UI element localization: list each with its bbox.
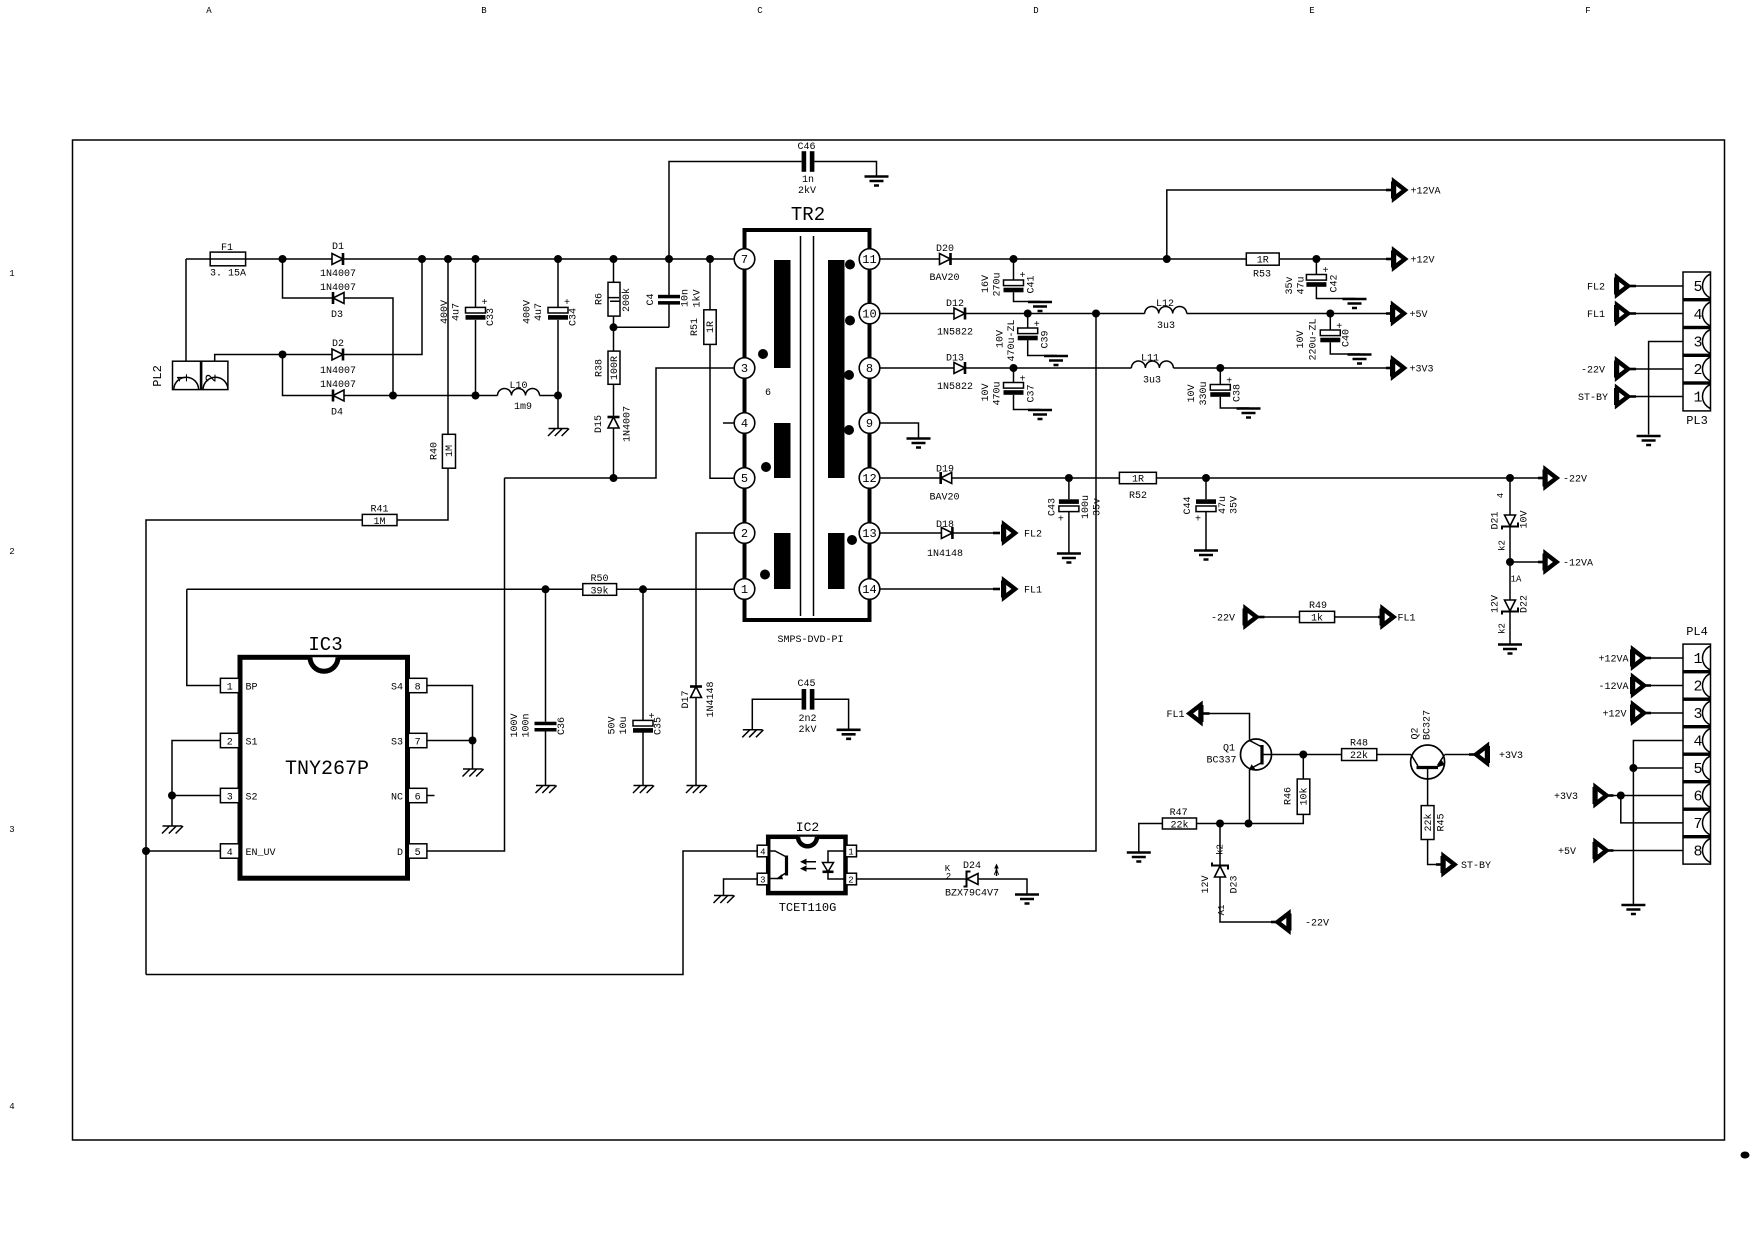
svg-text:4: 4	[1693, 734, 1702, 751]
svg-text:FL2: FL2	[1024, 530, 1042, 541]
capacitor C35 10u 50V	[642, 589, 644, 785]
svg-text:+12VA: +12VA	[1411, 187, 1441, 198]
svg-text:13: 13	[862, 527, 876, 541]
svg-text:BC327: BC327	[1423, 710, 1434, 740]
wire: D4 row riser and run	[283, 355, 498, 396]
svg-text:C43: C43	[1048, 498, 1059, 516]
wire: pin 12 -22V rail	[880, 477, 1538, 479]
IC3 pin 3 box	[220, 788, 239, 802]
svg-text:D20: D20	[936, 244, 954, 255]
node: R6/R38/C4 junction	[610, 323, 618, 331]
wire: Q2 collector to R45	[1427, 769, 1429, 806]
svg-text:NC: NC	[391, 792, 403, 803]
wire: PL4 pin 5 branch	[1633, 767, 1683, 769]
svg-text:11: 11	[862, 253, 876, 267]
node: D4 row C34/ground	[554, 392, 562, 400]
wire: R40 column from top rail	[447, 259, 449, 434]
ground (chassis) at C45 left	[742, 730, 763, 738]
svg-text:1: 1	[9, 269, 14, 279]
wire: pin 8 +3V3 rail	[880, 367, 1386, 369]
svg-text:50V: 50V	[608, 716, 619, 734]
IC3 pin 7 box	[408, 733, 427, 747]
node: -12VA junction	[1506, 558, 1514, 566]
wire: pin 9 to ground	[880, 423, 919, 439]
node: top rail R6	[610, 255, 618, 263]
wire: mains top rail from F1 area to TR2 pin 7	[186, 258, 745, 260]
node: top rail R51	[706, 255, 714, 263]
svg-text:12V: 12V	[1491, 595, 1502, 613]
svg-text:S3: S3	[391, 737, 403, 748]
TR2 polarity dot pin13 side	[847, 535, 857, 545]
wire: F1 left lead down to PL2 pin 1	[185, 259, 187, 361]
svg-text:400V: 400V	[523, 300, 534, 324]
wire: R49 to FL1 arrow	[1335, 616, 1378, 618]
svg-text:47u: 47u	[1218, 496, 1229, 514]
resistor R50 39k	[583, 584, 617, 596]
svg-text:C38: C38	[1233, 384, 1244, 402]
zener D24 BZX79C4V7	[964, 872, 979, 887]
wire: -22V arrow to R49	[1265, 616, 1300, 618]
flag arrow +3V3 into Q2	[1469, 753, 1476, 756]
svg-text:-22V: -22V	[1581, 366, 1605, 377]
flag arrow -22V	[1538, 477, 1544, 480]
svg-text:35V: 35V	[1230, 496, 1241, 514]
TR2 pin 12	[859, 468, 880, 489]
svg-text:1N4007: 1N4007	[320, 283, 356, 294]
diode D18 1N4148	[941, 527, 952, 539]
svg-text:10V: 10V	[981, 383, 992, 401]
zener D21 10V	[1502, 515, 1518, 530]
wire: IC2 pin 2 to D24	[857, 878, 967, 880]
svg-text:TCET110G: TCET110G	[779, 901, 837, 915]
node: D4 row C33	[472, 392, 480, 400]
svg-text:C40: C40	[1342, 329, 1353, 347]
svg-text:1R: 1R	[1257, 256, 1269, 267]
wire: IC3 pin 6 no-connect stub	[427, 795, 435, 797]
node: C44 junction	[1202, 474, 1210, 482]
svg-text:R49: R49	[1309, 601, 1327, 612]
svg-text:8: 8	[866, 362, 873, 376]
node: R50 row C35	[639, 585, 647, 593]
ground (chassis) at IC3 S3/S4	[463, 769, 484, 777]
TR2 pin 7	[734, 249, 755, 270]
flag arrow ST-BY	[1441, 856, 1455, 873]
svg-text:10u: 10u	[619, 716, 630, 734]
svg-text:22k: 22k	[1350, 750, 1368, 762]
ground (chassis) at IC3 S2	[162, 826, 183, 834]
TR2 pin 1	[734, 579, 755, 600]
node: top rail R40 column	[444, 255, 452, 263]
svg-text:14: 14	[862, 583, 876, 597]
svg-text:4: 4	[9, 1102, 14, 1112]
svg-text:35v: 35v	[1093, 498, 1104, 516]
wire: EN_UV bottom loop to IC2 pin 4	[146, 851, 758, 975]
svg-text:k2: k2	[1216, 844, 1226, 855]
svg-text:C33: C33	[486, 308, 497, 326]
ground (earth) at C42	[1343, 299, 1367, 308]
svg-text:R6: R6	[595, 293, 606, 305]
svg-text:8: 8	[415, 682, 421, 693]
node: D2 row junction	[279, 351, 287, 359]
svg-text:C45: C45	[797, 679, 815, 690]
node: top rail / D1 junction	[279, 255, 287, 263]
svg-text:4: 4	[1693, 307, 1702, 324]
svg-text:330u: 330u	[1199, 381, 1210, 405]
capacitor C34 4u7 400V	[557, 259, 559, 396]
PL3 cell 3	[1703, 330, 1711, 354]
svg-text:8: 8	[1693, 844, 1702, 861]
resistor R40 1M	[442, 434, 455, 468]
TR2 pin 4	[734, 413, 755, 434]
svg-text:TR2: TR2	[791, 204, 825, 226]
TR2 pin 14	[859, 579, 880, 600]
IC2 pin 4 box	[757, 845, 768, 857]
zener D22 12V	[1502, 600, 1518, 615]
svg-text:1n: 1n	[802, 175, 814, 186]
svg-text:R53: R53	[1253, 270, 1271, 281]
svg-text:100V: 100V	[510, 713, 521, 737]
wire: D17 to ground	[695, 698, 697, 786]
TR2 polarity dot pin1 side	[760, 570, 770, 580]
svg-text:10k: 10k	[1299, 787, 1311, 805]
resistor R52 1R	[1119, 472, 1156, 483]
svg-text:1: 1	[741, 583, 748, 597]
wire: +12VA branch	[1167, 190, 1386, 259]
svg-text:D: D	[397, 848, 403, 859]
svg-text:k2: k2	[1498, 623, 1508, 634]
svg-text:R41: R41	[370, 505, 388, 516]
svg-text:4: 4	[741, 417, 748, 431]
svg-text:D1: D1	[332, 242, 344, 253]
svg-text:R47: R47	[1170, 808, 1188, 819]
wire: pin 10 +5V rail	[880, 313, 1386, 315]
svg-text:BZX79C4V7: BZX79C4V7	[945, 889, 999, 900]
IC3 pin 8 box	[408, 678, 427, 692]
TR2 polarity dot pin3 side	[758, 349, 768, 359]
capacitor C42 47u 35v	[1316, 259, 1354, 299]
svg-text:S2: S2	[246, 792, 258, 803]
diode D1 1N4007	[332, 253, 343, 265]
ground (chassis) under C34	[548, 429, 569, 437]
svg-text:6: 6	[1693, 789, 1702, 806]
svg-text:D13: D13	[946, 354, 964, 365]
diode D20 BAV20	[940, 253, 951, 265]
svg-text:SMPS-DVD-PI: SMPS-DVD-PI	[777, 635, 843, 646]
wire: PL3 pin 3 to ground	[1649, 342, 1683, 435]
transformer TR2 frame	[745, 230, 870, 249]
wire: pin 14 to FL1	[880, 588, 993, 590]
svg-text:1N5822: 1N5822	[937, 328, 973, 339]
TR2 pin 3	[734, 358, 755, 379]
IC2 light arrows	[802, 862, 816, 869]
svg-text:L10: L10	[509, 381, 527, 392]
resistor R38 100R	[608, 351, 620, 384]
TR2 pin 5	[734, 468, 755, 489]
diode D4 1N4007	[333, 390, 344, 402]
svg-text:3: 3	[741, 362, 748, 376]
flag arrow +3V3	[1390, 360, 1404, 377]
wire: IC3 S4 to S3 column	[427, 686, 473, 741]
PL3 cell 2	[1703, 357, 1711, 381]
wire: +12VA to PL4 pin 1	[1651, 657, 1683, 659]
PL4 cell 3	[1703, 701, 1711, 725]
node: R50 row C36	[542, 585, 550, 593]
TR2 pin 8	[859, 358, 880, 379]
ground (chassis) at C35	[633, 786, 654, 794]
svg-text:10V: 10V	[1296, 330, 1307, 348]
svg-text:TNY267P: TNY267P	[285, 758, 369, 781]
svg-text:k2: k2	[1498, 540, 1508, 551]
diode D2 1N4007	[332, 349, 343, 361]
svg-text:EN_UV: EN_UV	[246, 848, 276, 859]
svg-text:100n: 100n	[522, 713, 533, 737]
wire: stem to chassis ground under C34	[557, 396, 559, 429]
svg-text:2: 2	[848, 875, 853, 885]
node: C42 junction	[1312, 255, 1320, 263]
svg-text:C36: C36	[557, 717, 568, 735]
TR2 primary winding bar (pins 2-1)	[774, 533, 791, 589]
diode D19 BAV20	[941, 472, 952, 484]
svg-text:D23: D23	[1230, 875, 1241, 893]
wire: +5V to PL4 pin 8	[1614, 850, 1684, 852]
svg-text:IC3: IC3	[308, 634, 342, 656]
TR2 pin 11	[859, 249, 880, 270]
flag arrow +5V	[1390, 305, 1404, 322]
svg-text:ST-BY: ST-BY	[1461, 861, 1491, 872]
svg-text:7: 7	[741, 253, 748, 267]
svg-text:1N4007: 1N4007	[320, 366, 356, 377]
svg-text:D21: D21	[1491, 511, 1502, 529]
svg-text:-12VA: -12VA	[1563, 559, 1593, 570]
wire: R46 top lead	[1302, 755, 1304, 780]
svg-text:+: +	[1195, 515, 1201, 526]
svg-text:1N5822: 1N5822	[937, 382, 973, 393]
svg-text:1k: 1k	[1311, 613, 1323, 625]
svg-text:A: A	[206, 6, 212, 16]
node: D21 chain junction	[1506, 474, 1514, 482]
svg-text:+: +	[1322, 266, 1328, 277]
wire: L10 to C34 bottom junction	[540, 395, 559, 397]
svg-text:FL1: FL1	[1587, 310, 1605, 321]
svg-text:3: 3	[9, 825, 14, 835]
svg-text:1N4007: 1N4007	[320, 380, 356, 391]
wire: +12V to PL4 pin 3	[1651, 712, 1683, 714]
wire: C46 right to ground	[814, 162, 876, 177]
ground (earth) at PL3	[1637, 436, 1661, 445]
node: C39 junction	[1024, 310, 1032, 318]
IC3 pin 2 box	[220, 733, 239, 747]
node: C37 junction	[1010, 364, 1018, 372]
TR2 polarity dot pin8 side	[844, 370, 854, 380]
svg-text:-22V: -22V	[1211, 614, 1235, 625]
node: S1/S2 junction	[168, 792, 176, 800]
svg-text:10: 10	[862, 308, 876, 322]
flag arrow -22V into D23	[1271, 921, 1278, 924]
wire: R51 bottom down and right to TR2 pin 5	[710, 344, 734, 478]
resistor R53 1R	[1246, 253, 1279, 265]
svg-text:39k: 39k	[590, 585, 608, 597]
wire: TR2 pin 2 to D17 column	[696, 533, 734, 687]
TR2 pin 13	[859, 523, 880, 544]
flag arrow -12VA	[1538, 561, 1544, 564]
svg-text:100R: 100R	[610, 356, 621, 380]
svg-text:470u-ZL: 470u-ZL	[1007, 319, 1018, 361]
svg-text:Q1: Q1	[1223, 744, 1235, 755]
PL4 cell 7	[1703, 811, 1711, 835]
node: PL4 ground column junction	[1629, 764, 1637, 772]
IC2 pin 2 box	[846, 873, 857, 885]
svg-text:C39: C39	[1041, 330, 1052, 348]
svg-text:10V: 10V	[1187, 384, 1198, 402]
svg-text:270u: 270u	[993, 272, 1004, 296]
svg-text:22k: 22k	[1170, 819, 1188, 831]
capacitor C4 10n 1kV	[668, 259, 670, 327]
svg-text:C46: C46	[797, 142, 815, 153]
ground (earth) at C43	[1057, 554, 1081, 563]
svg-text:D: D	[1033, 6, 1038, 16]
svg-text:-12VA: -12VA	[1598, 682, 1628, 693]
svg-text:R51: R51	[690, 318, 701, 336]
wire: -22V to PL3 pin 2	[1636, 368, 1683, 370]
svg-text:10V: 10V	[1520, 510, 1531, 528]
wire: FL1 to PL3 pin 4	[1636, 313, 1683, 315]
svg-text:B: B	[481, 6, 487, 16]
svg-text:BAV20: BAV20	[929, 273, 959, 284]
node: C38 junction	[1216, 364, 1224, 372]
node: D4/D3 junction	[389, 392, 397, 400]
wire: R6 bottom to junction, across to C4	[614, 316, 670, 351]
svg-text:BC337: BC337	[1206, 756, 1236, 767]
svg-text:1: 1	[1693, 390, 1702, 407]
svg-text:16V: 16V	[981, 275, 992, 293]
svg-text:2: 2	[204, 373, 221, 382]
svg-text:E: E	[1309, 6, 1314, 16]
svg-text:3: 3	[760, 875, 765, 885]
wire: FL1 to Q1 collector	[1210, 714, 1250, 740]
wire: PL4 pin 4 to ground column	[1633, 741, 1683, 906]
TR2 pin 9	[859, 413, 880, 434]
svg-text:D17: D17	[681, 690, 692, 708]
svg-text:D4: D4	[331, 408, 343, 419]
svg-text:3u3: 3u3	[1143, 376, 1161, 387]
flag arrow FL1 out	[993, 588, 1000, 591]
wire: R6 top lead	[613, 259, 615, 282]
node: C41 junction	[1010, 255, 1018, 263]
svg-text:6: 6	[765, 388, 771, 399]
capacitor C41 270u 16V	[1014, 259, 1041, 302]
PL3 cell 5	[1703, 274, 1711, 298]
wire: Q2 emitter to +3V3 flag	[1445, 754, 1470, 756]
svg-text:ST-BY: ST-BY	[1578, 393, 1608, 404]
svg-text:47u: 47u	[1297, 276, 1308, 294]
svg-text:R52: R52	[1129, 491, 1147, 502]
resistor R41 1M	[362, 514, 397, 525]
TR2 polarity dot pin11 side	[845, 260, 855, 270]
svg-text:12V: 12V	[1201, 875, 1212, 893]
wire: D15 bottom to bias row	[613, 428, 615, 478]
svg-text:3: 3	[1693, 706, 1702, 723]
svg-text:2kV: 2kV	[798, 185, 816, 197]
svg-text:+: +	[481, 298, 487, 309]
svg-text:+5V: +5V	[1410, 310, 1428, 321]
IC2 LED	[828, 851, 846, 879]
svg-text:10V: 10V	[996, 330, 1007, 348]
resistor R46 10k	[1297, 779, 1310, 814]
svg-text:-22V: -22V	[1305, 919, 1329, 930]
TR2 polarity dot pin5 side	[761, 462, 771, 472]
ground (earth) at pin 9	[907, 439, 931, 448]
svg-text:FL2: FL2	[1587, 283, 1605, 294]
ground (earth) at D24	[1015, 895, 1039, 904]
svg-text:-22V: -22V	[1563, 475, 1587, 486]
svg-text:1kV: 1kV	[692, 289, 704, 307]
capacitor C38 330u 10V	[1220, 368, 1248, 409]
svg-text:100u: 100u	[1081, 495, 1092, 519]
PL4 cell 8	[1703, 839, 1711, 863]
wire: ST-BY to PL3 pin 1	[1636, 396, 1683, 398]
svg-text:D22: D22	[1520, 595, 1531, 613]
TR2 polarity dot pin10 side	[845, 316, 855, 326]
wire: IC2 pin 3 to ground	[724, 879, 758, 896]
node: top rail C34	[554, 255, 562, 263]
svg-text:4: 4	[1496, 493, 1506, 498]
svg-text:1R: 1R	[1132, 475, 1144, 486]
ground (earth) at C44	[1194, 551, 1218, 560]
svg-text:R48: R48	[1350, 739, 1368, 750]
diode D12 1N5822	[954, 308, 965, 320]
wire: IC3 S3 to column and ground	[427, 741, 473, 770]
PL3 cell 4	[1703, 302, 1711, 326]
ground (earth) at C39	[1044, 356, 1068, 365]
svg-text:+: +	[1019, 271, 1025, 282]
svg-text:4: 4	[760, 847, 765, 857]
inductor L11 3u3	[1131, 361, 1173, 368]
IC3 pin 4 box	[220, 844, 239, 858]
wire: R47 left to ground	[1139, 824, 1163, 853]
node: IC2 feedback riser junction	[1092, 310, 1100, 318]
svg-text:R46: R46	[1284, 787, 1295, 805]
svg-text:1: 1	[1693, 651, 1702, 668]
svg-text:PL2: PL2	[151, 365, 165, 387]
TR2 pin 2	[734, 523, 755, 544]
svg-text:FL1: FL1	[1398, 614, 1416, 625]
svg-text:C34: C34	[569, 308, 580, 326]
svg-text:2: 2	[741, 527, 748, 541]
resistor R49 1k	[1300, 611, 1335, 622]
wire: pin 13 to FL2	[880, 532, 993, 534]
svg-text:C37: C37	[1027, 384, 1038, 402]
svg-text:IC2: IC2	[796, 820, 819, 835]
svg-text:5: 5	[1693, 279, 1702, 296]
svg-text:+5V: +5V	[1558, 847, 1576, 858]
wire: Q1 emitter down to R47 row	[1249, 770, 1251, 824]
capacitor C43 100u 35v	[1068, 478, 1070, 554]
svg-text:2kV: 2kV	[798, 724, 816, 736]
svg-text:1M: 1M	[445, 445, 456, 457]
ground (earth) at C40	[1348, 355, 1372, 364]
svg-text:+12V: +12V	[1602, 710, 1626, 721]
inductor L10 1m9	[498, 389, 540, 396]
ground (earth) at D22	[1498, 645, 1522, 654]
svg-text:R40: R40	[430, 442, 441, 460]
PL4 cell 1	[1703, 646, 1711, 670]
flag arrow FL2 out	[993, 532, 1000, 535]
svg-text:BP: BP	[246, 682, 258, 693]
svg-text:12: 12	[862, 472, 876, 486]
wire: IC3 S2 to column and ground	[172, 796, 220, 827]
wire: R41 left to EN_UV column	[146, 520, 362, 975]
node: Q1 base junction	[1299, 751, 1307, 759]
